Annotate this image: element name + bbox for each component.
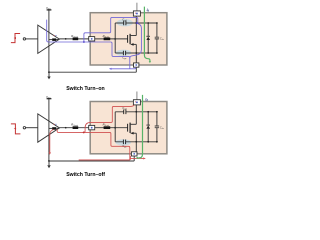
svg-text:Switch Turn–off: Switch Turn–off [66, 172, 105, 178]
svg-text:Switch Turn–on: Switch Turn–on [66, 86, 105, 92]
svg-text:Id: Id [147, 8, 150, 13]
